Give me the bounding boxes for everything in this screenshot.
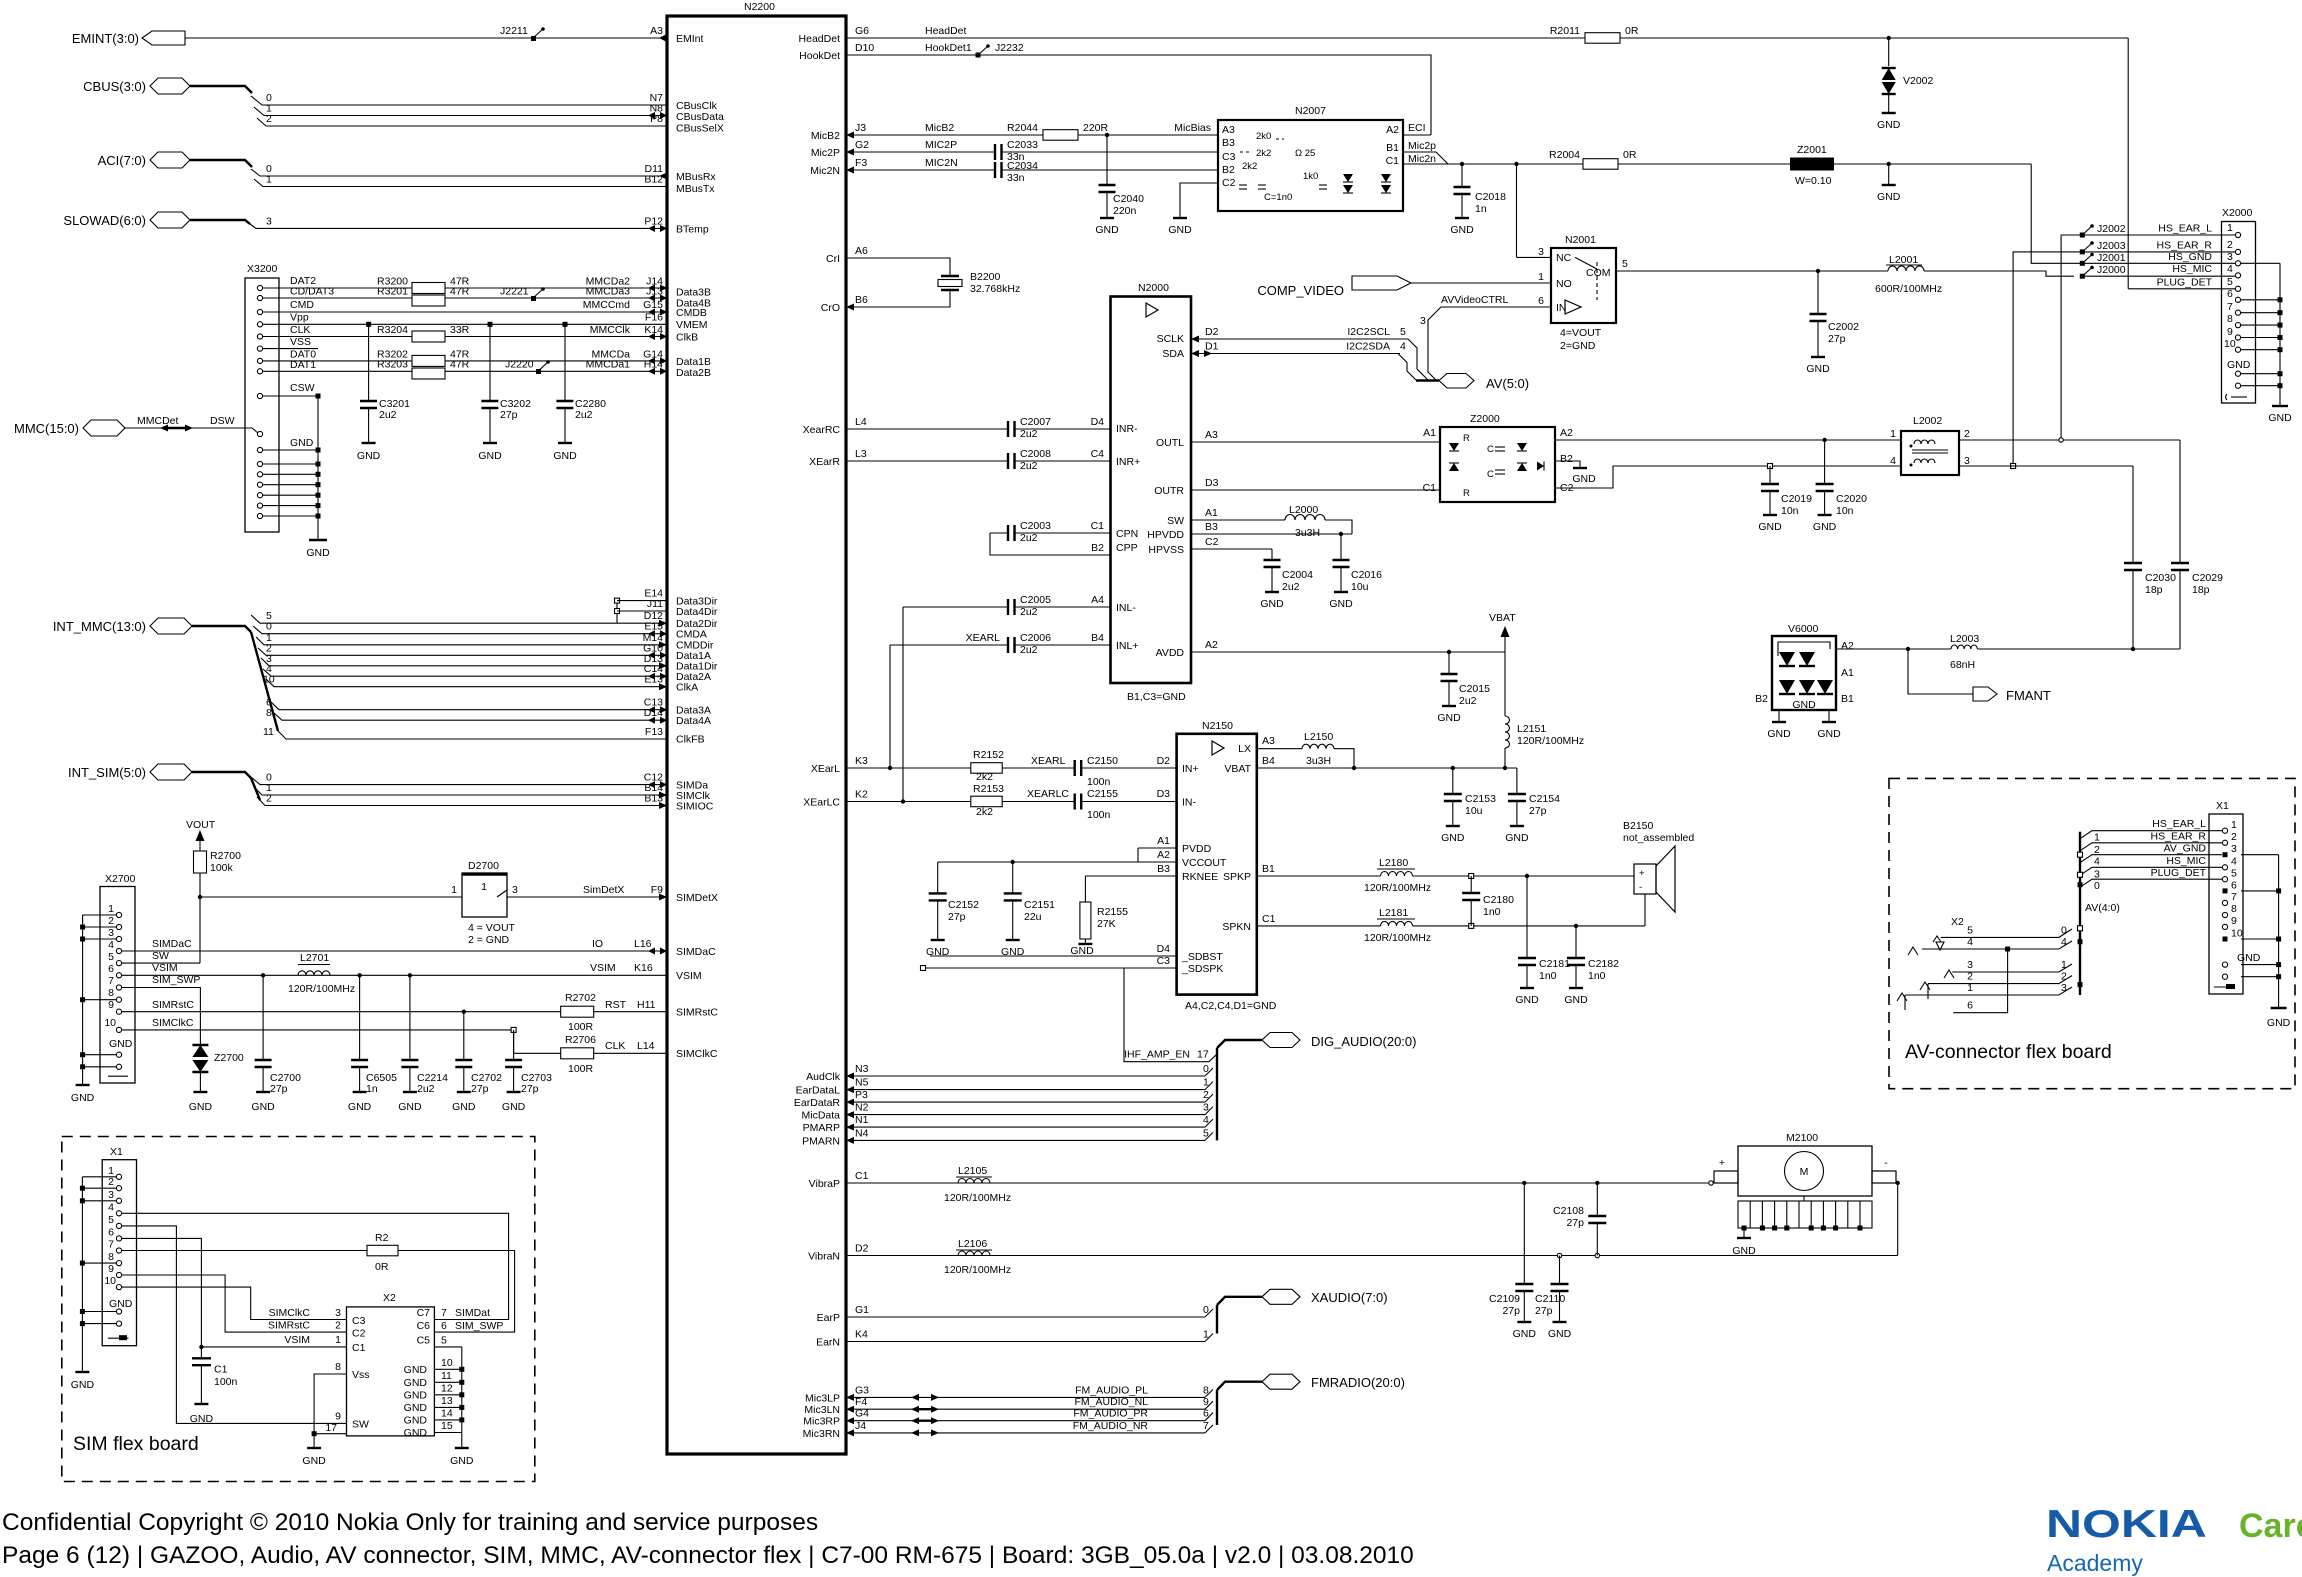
svg-text:4: 4 <box>2231 856 2237 868</box>
svg-text:AVDD: AVDD <box>1156 647 1185 659</box>
ground X1 AV <box>2267 1008 2291 1029</box>
svg-text:Ω 25: Ω 25 <box>1295 148 1315 159</box>
svg-text:J2232: J2232 <box>995 42 1024 54</box>
svg-text:4: 4 <box>2094 856 2100 868</box>
svg-text:Vpp: Vpp <box>290 312 309 324</box>
svg-text:MMCDa1: MMCDa1 <box>586 358 630 370</box>
svg-text:3: 3 <box>512 884 518 896</box>
svg-text:K2: K2 <box>855 789 868 801</box>
wire VBAT rail <box>1257 755 1517 770</box>
svg-text:1: 1 <box>108 903 114 915</box>
X2000 pins <box>2224 222 2251 400</box>
svg-text:10u: 10u <box>1351 581 1369 593</box>
svg-text:GND: GND <box>1329 598 1353 610</box>
ground C3202 <box>478 443 502 462</box>
svg-text:27p: 27p <box>471 1083 489 1095</box>
bus CBUS(3:0) <box>83 78 252 94</box>
svg-text:VCCOUT: VCCOUT <box>1182 857 1227 869</box>
svg-text:13: 13 <box>441 1395 453 1407</box>
svg-text:CBUS(3:0): CBUS(3:0) <box>83 79 146 94</box>
svg-text:X2: X2 <box>1951 916 1964 928</box>
wire DAT0 / resistor R3202 47R <box>263 348 667 366</box>
svg-text:J2003: J2003 <box>2097 240 2126 252</box>
svg-text:C2034: C2034 <box>1007 160 1038 172</box>
svg-text:15: 15 <box>441 1420 453 1432</box>
ground C2702 <box>452 1092 476 1113</box>
svg-text:N2007: N2007 <box>1295 105 1326 117</box>
trunk diagonal INT_MMC <box>251 632 278 731</box>
svg-text:MMCCmd: MMCCmd <box>583 299 630 311</box>
svg-text:600R/100MHz: 600R/100MHz <box>1875 283 1942 295</box>
svg-text:D2: D2 <box>1157 755 1171 767</box>
svg-text:3: 3 <box>108 927 114 939</box>
wire EarP <box>846 1304 1213 1317</box>
wire SCLK I2C2SCL <box>1191 326 1408 343</box>
wire Mic3RP FM_AUDIO_PR <box>846 1408 1213 1425</box>
svg-text:27p: 27p <box>521 1083 539 1095</box>
svg-text:8: 8 <box>2231 903 2237 915</box>
svg-text:A3: A3 <box>1262 735 1275 747</box>
ground C2182 <box>1564 988 1588 1006</box>
svg-text:GND: GND <box>1792 699 1816 711</box>
wire ACI bit1 MBusTx <box>254 174 667 187</box>
svg-text:27p: 27p <box>1502 1305 1520 1317</box>
ground Z2700 <box>189 1092 213 1113</box>
ground R2155 <box>1070 944 1094 957</box>
svg-text:C2: C2 <box>1222 177 1236 189</box>
jumper J2000 <box>2080 264 2126 279</box>
diode D2700 SIM detect switch <box>451 860 518 946</box>
wire X1 pin4 to SIMDat <box>122 1213 509 1319</box>
wire HS_GND <box>2031 164 2280 263</box>
node C2040 junction <box>1105 133 1109 137</box>
wire INT_MMC bit5 Data2Dir <box>251 610 667 627</box>
svg-text:A4: A4 <box>1091 594 1104 606</box>
svg-text:B2200: B2200 <box>970 271 1001 283</box>
ground C2002 <box>1806 357 1830 375</box>
svg-text:C2: C2 <box>1205 536 1219 548</box>
svg-text:CLK: CLK <box>290 324 310 336</box>
svg-text:GND: GND <box>190 1413 214 1425</box>
svg-text:SIMRstC: SIMRstC <box>676 1007 718 1019</box>
svg-text:GND: GND <box>1548 1328 1572 1340</box>
wire SPKP / inductor L2180 <box>1257 857 1634 894</box>
svg-text:SPKN: SPKN <box>1222 921 1251 933</box>
connector X1 (SIM flex) <box>102 1146 136 1346</box>
wire X1 AV ground bus <box>2241 855 2279 1008</box>
svg-text:6: 6 <box>108 1226 114 1238</box>
svg-text:N5: N5 <box>855 1077 869 1089</box>
svg-text:9: 9 <box>108 1263 114 1275</box>
capacitor C2018 1n <box>1454 162 1507 218</box>
svg-text:2u2: 2u2 <box>575 409 593 421</box>
pin names X3200 <box>290 275 334 449</box>
svg-text:GND: GND <box>1515 994 1539 1006</box>
svg-text:L14: L14 <box>637 1040 655 1052</box>
capacitor C3201 2u2 <box>360 322 410 443</box>
svg-text:Mic2N: Mic2N <box>810 165 840 177</box>
wire Vss/pin17 <box>312 1374 347 1448</box>
svg-text:K16: K16 <box>634 962 653 974</box>
capacitor C3202 27p <box>481 322 531 443</box>
svg-text:XearRC: XearRC <box>803 424 841 436</box>
svg-text:Z2001: Z2001 <box>1797 144 1827 156</box>
svg-text:B4: B4 <box>1091 632 1104 644</box>
wire Vpp VMEM <box>263 311 667 324</box>
svg-text:XEarLC: XEarLC <box>803 797 840 809</box>
svg-text:F16: F16 <box>645 311 663 323</box>
svg-text:AudClk: AudClk <box>806 1071 841 1083</box>
ground C2020 <box>1813 515 1837 533</box>
svg-text:INR-: INR- <box>1116 423 1138 435</box>
svg-text:3: 3 <box>2231 843 2237 855</box>
svg-text:B1: B1 <box>1386 142 1399 154</box>
wire PLUG_DET (AV) <box>2080 867 2222 892</box>
svg-text:B2: B2 <box>1755 693 1768 705</box>
node VSIM junctions <box>261 973 265 977</box>
svg-text:1n0: 1n0 <box>1588 970 1606 982</box>
svg-text:4: 4 <box>108 939 114 951</box>
wire INT_SIM bit0 SIMDa <box>251 772 667 789</box>
svg-text:GND: GND <box>1877 191 1901 203</box>
wire SPKN / inductor L2181 <box>1257 894 1645 944</box>
bus COMP_VIDEO <box>1257 276 1551 298</box>
wire AVVideoCTRL <box>1420 294 1551 380</box>
svg-text:Z2700: Z2700 <box>214 1052 244 1064</box>
svg-text:7: 7 <box>1203 1420 1209 1432</box>
svg-text:CrO: CrO <box>821 302 840 314</box>
wire Mic2n chain <box>1403 153 2031 165</box>
svg-text:22u: 22u <box>1024 911 1042 923</box>
svg-text:Mic2n: Mic2n <box>1408 153 1436 165</box>
svg-text:MBusRx: MBusRx <box>676 171 716 183</box>
svg-text:4: 4 <box>1967 936 1973 948</box>
svg-text:GND: GND <box>1813 521 1837 533</box>
svg-text:D2: D2 <box>1205 326 1219 338</box>
svg-text:6: 6 <box>108 963 114 975</box>
svg-text:GND: GND <box>357 450 381 462</box>
svg-text:33R: 33R <box>450 324 470 336</box>
svg-text:EarP: EarP <box>817 1312 840 1324</box>
svg-text:I2C2SDA: I2C2SDA <box>1346 341 1390 353</box>
svg-text:1: 1 <box>2094 832 2100 844</box>
svg-text:J2001: J2001 <box>2097 252 2126 264</box>
svg-text:4=VOUT: 4=VOUT <box>1560 327 1602 339</box>
jumper J2003 <box>2080 240 2126 254</box>
resistor R2 0R on pin7 line <box>122 1232 515 1332</box>
svg-text:CBusData: CBusData <box>676 111 724 123</box>
wire INT_MMC bit0 CMDA <box>253 621 667 638</box>
svg-text:GND: GND <box>553 450 577 462</box>
N2200 left pin labels <box>676 33 724 1060</box>
wire INT_SIM bit1 SIMClk <box>254 782 667 799</box>
wire PMARN <box>846 1127 1213 1144</box>
svg-text:D3: D3 <box>1205 477 1219 489</box>
svg-text:NO: NO <box>1556 278 1572 290</box>
svg-text:NC: NC <box>1556 252 1572 264</box>
svg-text:VOUT: VOUT <box>186 819 216 831</box>
wire CMD <box>263 299 667 316</box>
svg-text:C2152: C2152 <box>948 899 979 911</box>
wire Z2000 A2 line <box>1555 438 1901 442</box>
svg-text:GND: GND <box>404 1364 428 1376</box>
svg-text:1: 1 <box>2061 959 2067 971</box>
svg-text:C6: C6 <box>417 1320 431 1332</box>
wire FM antenna line / inductor L2003 68nH <box>1836 633 2180 671</box>
svg-text:3: 3 <box>1420 315 1426 327</box>
key mark X1 <box>108 1335 129 1340</box>
wire X2 pin2 / AV2 <box>1920 971 2072 999</box>
svg-text:Mic3RN: Mic3RN <box>803 1428 840 1440</box>
svg-text:CBusSelX: CBusSelX <box>676 123 724 135</box>
transformer L2002 <box>1890 415 1970 475</box>
wire SIMRstC / resistor R2702 100R <box>122 992 667 1033</box>
svg-text:-: - <box>1884 1157 1888 1169</box>
svg-text:C4: C4 <box>1091 448 1105 460</box>
svg-text:M2100: M2100 <box>1786 1132 1818 1144</box>
svg-text:Mic3LN: Mic3LN <box>804 1404 840 1416</box>
svg-text:27p: 27p <box>1529 805 1547 817</box>
svg-text:HS_GND: HS_GND <box>2168 251 2212 263</box>
wire SIMClkC / resistor R2706 100R <box>122 1017 667 1075</box>
wire Mic2P / capacitor C2033 33n <box>846 139 1218 163</box>
svg-text:GND: GND <box>1732 1245 1756 1257</box>
svg-text:MicB2: MicB2 <box>925 122 954 134</box>
svg-text:B2: B2 <box>1091 542 1104 554</box>
svg-text:A2: A2 <box>1841 640 1854 652</box>
svg-text:+: + <box>1719 1157 1725 1169</box>
svg-text:GND: GND <box>502 1101 526 1113</box>
svg-text:GND: GND <box>1817 728 1841 740</box>
wire AVDD <box>1191 639 1505 654</box>
svg-text:COM: COM <box>1586 267 1611 279</box>
svg-text:SDA: SDA <box>1162 348 1184 360</box>
ground C2015 <box>1437 706 1461 724</box>
wire X1 pin9 to X2 SIMRstC <box>122 1275 347 1332</box>
svg-text:IN+: IN+ <box>1182 763 1199 775</box>
svg-text:1: 1 <box>335 1334 341 1346</box>
svg-text:C2004: C2004 <box>1282 569 1313 581</box>
crystal B2200 32.768kHz <box>846 258 1020 311</box>
svg-text:Academy: Academy <box>2047 1550 2143 1576</box>
svg-text:DSW: DSW <box>210 415 235 427</box>
wire HS_MIC (AV) <box>2080 855 2222 880</box>
svg-text:SIM flex board: SIM flex board <box>73 1433 199 1455</box>
svg-text:W=0.10: W=0.10 <box>1795 175 1832 187</box>
svg-text:G6: G6 <box>855 25 869 37</box>
svg-text:R3201: R3201 <box>377 286 408 298</box>
svg-text:R: R <box>1463 488 1470 499</box>
svg-text:RST: RST <box>605 999 627 1011</box>
svg-text:R2155: R2155 <box>1097 906 1128 918</box>
SIM flex board outline <box>62 1137 535 1482</box>
svg-text:J2221: J2221 <box>500 286 529 298</box>
svg-text:10u: 10u <box>1465 805 1483 817</box>
wire HS_EAR_R <box>2013 239 2235 464</box>
wire HS_MIC <box>2082 263 2235 276</box>
diode V2002 <box>1882 36 1934 113</box>
wire CBus bit1 CBusData <box>254 103 667 120</box>
svg-text:GND: GND <box>1441 832 1465 844</box>
svg-text:HS_MIC: HS_MIC <box>2166 855 2206 867</box>
wire HeadDet <box>846 25 2128 38</box>
svg-text:9: 9 <box>108 999 114 1011</box>
svg-text:G2: G2 <box>855 139 869 151</box>
svg-text:INT_SIM(5:0): INT_SIM(5:0) <box>68 765 146 780</box>
wire MicB2 / resistor R2044 220R <box>846 122 1218 140</box>
wire SIM_SWP <box>122 974 201 1044</box>
svg-text:Z2000: Z2000 <box>1470 413 1500 425</box>
svg-text:120R/100MHz: 120R/100MHz <box>1364 882 1431 894</box>
svg-text:GND: GND <box>2227 359 2251 371</box>
svg-text:IO: IO <box>592 938 603 950</box>
bus ACI(7:0) <box>98 152 252 168</box>
svg-text:C2151: C2151 <box>1024 899 1055 911</box>
svg-text:C5: C5 <box>417 1335 431 1347</box>
svg-text:VBAT: VBAT <box>1224 763 1251 775</box>
svg-text:Mic3LP: Mic3LP <box>805 1392 840 1404</box>
svg-text:J11: J11 <box>647 598 663 610</box>
svg-text:L2106: L2106 <box>958 1238 987 1250</box>
svg-text:AV(4:0): AV(4:0) <box>2085 902 2120 914</box>
svg-text:1: 1 <box>1890 428 1896 440</box>
svg-text:120R/100MHz: 120R/100MHz <box>1364 932 1431 944</box>
diode array V6000 FM ESD <box>1755 623 1854 711</box>
svg-text:4: 4 <box>1890 455 1896 467</box>
svg-text:1: 1 <box>1203 1329 1209 1341</box>
svg-text:GND: GND <box>2268 412 2292 424</box>
svg-text:2: 2 <box>2061 971 2067 983</box>
svg-text:R2044: R2044 <box>1007 122 1038 134</box>
svg-text:SW: SW <box>1167 515 1184 527</box>
ground C2018 <box>1450 218 1474 236</box>
svg-text:COMP_VIDEO: COMP_VIDEO <box>1257 283 1344 298</box>
svg-text:SW: SW <box>152 950 169 962</box>
svg-text:SIMClkC: SIMClkC <box>676 1048 718 1060</box>
svg-text:10: 10 <box>104 1017 116 1029</box>
svg-text:3: 3 <box>1538 246 1544 258</box>
svg-text:GND: GND <box>404 1427 428 1439</box>
wire INT_MMC bit3 Data1Dir <box>261 653 667 670</box>
svg-text:3: 3 <box>108 1189 114 1201</box>
node bracket Data3Dir/Data4Dir <box>615 598 620 623</box>
svg-text:P3: P3 <box>855 1089 868 1101</box>
wire INT_MMC bit8 Data4A <box>266 707 667 724</box>
svg-text:2u2: 2u2 <box>1020 606 1038 618</box>
svg-text:4: 4 <box>1400 341 1406 353</box>
capacitor C2002 27p <box>1810 271 1860 357</box>
svg-text:EMINT(3:0): EMINT(3:0) <box>72 31 139 46</box>
svg-text:10: 10 <box>2231 928 2243 940</box>
svg-text:X3200: X3200 <box>247 263 278 275</box>
svg-text:1: 1 <box>2231 819 2237 831</box>
capacitor C2020 10n <box>1816 440 1868 517</box>
svg-text:SimDetX: SimDetX <box>583 884 624 896</box>
svg-text:2u2: 2u2 <box>1020 460 1038 472</box>
svg-text:GND: GND <box>1095 224 1119 236</box>
capacitor C2702 27p <box>455 1012 502 1095</box>
svg-text:1n0: 1n0 <box>1539 970 1557 982</box>
svg-text:R2700: R2700 <box>210 850 241 862</box>
svg-text:Data4A: Data4A <box>676 715 711 727</box>
svg-text:A6: A6 <box>855 245 868 257</box>
svg-text:DIG_AUDIO(20:0): DIG_AUDIO(20:0) <box>1311 1034 1416 1049</box>
svg-text:B2: B2 <box>1222 164 1235 176</box>
svg-text:8: 8 <box>1203 1384 1209 1396</box>
ground X2700 <box>71 1085 95 1104</box>
svg-text:B3: B3 <box>1205 521 1218 533</box>
svg-text:C2030: C2030 <box>2145 572 2176 584</box>
N2200 right pin labels <box>794 33 841 1440</box>
svg-text:5: 5 <box>2231 868 2237 880</box>
svg-text:IN-: IN- <box>1182 797 1197 809</box>
svg-text:B12: B12 <box>644 174 663 186</box>
svg-text:B3: B3 <box>1222 137 1235 149</box>
net VOUT arrow <box>186 819 216 851</box>
ground C2154 <box>1505 826 1529 844</box>
wire SW / inductor L2000 3u3H <box>1191 504 1352 539</box>
svg-text:VSIM: VSIM <box>676 970 702 982</box>
svg-text:A2: A2 <box>1386 124 1399 136</box>
wire X3200 ground bus <box>263 396 318 540</box>
svg-text:L4: L4 <box>855 416 867 428</box>
svg-text:C2: C2 <box>352 1328 366 1340</box>
svg-text:32.768kHz: 32.768kHz <box>970 283 1020 295</box>
svg-text:A2: A2 <box>1205 639 1218 651</box>
wire HS_EAR_R (AV) <box>2080 831 2222 856</box>
svg-text:GND: GND <box>290 437 314 449</box>
svg-text:6: 6 <box>441 1320 447 1332</box>
svg-text:0R: 0R <box>375 1261 389 1273</box>
svg-text:HeadDet: HeadDet <box>925 25 967 37</box>
wire IHF_AMP_EN <box>1124 1049 1209 1061</box>
svg-text:PLUG_DET: PLUG_DET <box>2157 276 2213 288</box>
svg-text:PMARP: PMARP <box>803 1122 840 1134</box>
svg-text:MIC2P: MIC2P <box>925 139 957 151</box>
svg-text:GND: GND <box>478 450 502 462</box>
svg-text:1k0: 1k0 <box>1303 171 1318 182</box>
wire CPP loop <box>990 533 1111 555</box>
wire PVDD / VCCOUT <box>938 835 1177 864</box>
wire X2 pin6 <box>1953 949 2007 1013</box>
svg-text:2: 2 <box>2231 831 2237 843</box>
svg-text:V2002: V2002 <box>1903 75 1934 87</box>
capacitor C2154 27p <box>1508 768 1560 826</box>
svg-text:Mic3RP: Mic3RP <box>803 1416 840 1428</box>
wire HPVSS <box>1191 536 1272 560</box>
svg-text:2: 2 <box>108 915 114 927</box>
bus AV(4:0) vertical <box>2078 832 2120 995</box>
svg-text:FM_AUDIO_PR: FM_AUDIO_PR <box>1073 1408 1148 1420</box>
svg-text:2=GND: 2=GND <box>1560 340 1596 352</box>
svg-text:9: 9 <box>2227 326 2233 338</box>
svg-text:2: 2 <box>2094 844 2100 856</box>
motor M2100 pin comb <box>1738 1196 1872 1238</box>
svg-text:HS_MIC: HS_MIC <box>2172 263 2212 275</box>
pin A3 <box>650 25 667 42</box>
svg-text:C1: C1 <box>1091 520 1105 532</box>
wire CPN / capacitor C2003 2u2 <box>990 520 1111 544</box>
svg-text:FM_AUDIO_PL: FM_AUDIO_PL <box>1075 1384 1148 1396</box>
svg-text:HPVSS: HPVSS <box>1148 544 1184 556</box>
svg-text:1: 1 <box>266 174 272 186</box>
svg-text:FM_AUDIO_NL: FM_AUDIO_NL <box>1074 1396 1148 1408</box>
svg-text:4: 4 <box>2227 263 2233 275</box>
svg-text:17: 17 <box>325 1422 337 1434</box>
wire XEarR / capacitor C2008 2u2 <box>846 448 1111 472</box>
wire Mic2p <box>1403 140 1448 164</box>
connector X1 (AV flex) <box>2209 800 2243 994</box>
